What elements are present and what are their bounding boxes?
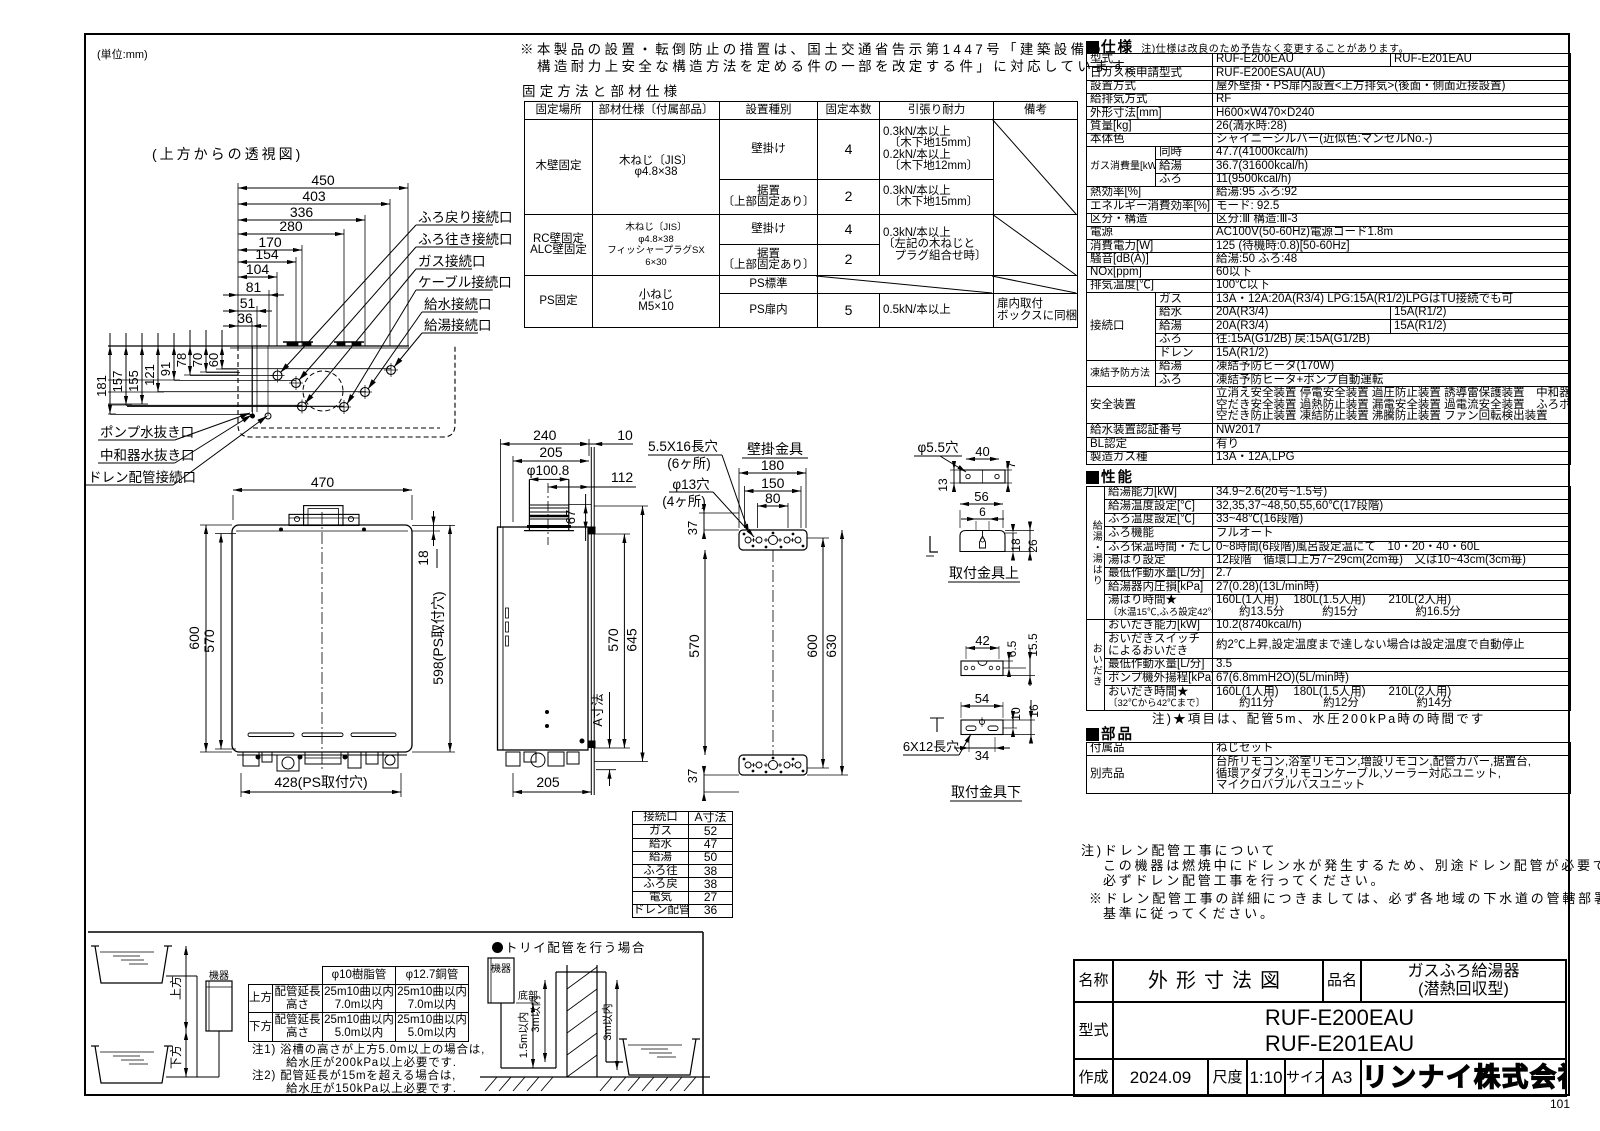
- svg-text:645: 645: [624, 628, 640, 652]
- svg-text:470: 470: [311, 474, 335, 490]
- svg-text:ふろ往き接続口: ふろ往き接続口: [418, 231, 513, 247]
- svg-text:下方: 下方: [168, 1045, 183, 1069]
- svg-text:180: 180: [761, 457, 785, 473]
- svg-text:26: 26: [1026, 539, 1040, 553]
- svg-text:5.5X16長穴: 5.5X16長穴: [648, 439, 718, 454]
- svg-text:10: 10: [1009, 707, 1023, 721]
- svg-text:67: 67: [563, 510, 578, 524]
- svg-text:205: 205: [536, 774, 560, 790]
- svg-text:機器: 機器: [209, 969, 229, 982]
- svg-text:81: 81: [246, 279, 262, 295]
- svg-text:ドレン配管接続口: ドレン配管接続口: [88, 469, 196, 485]
- svg-text:155: 155: [126, 370, 141, 392]
- svg-text:18: 18: [1009, 538, 1023, 552]
- svg-text:600: 600: [186, 626, 202, 650]
- svg-text:3m以内: 3m以内: [528, 995, 542, 1032]
- svg-text:(4ヶ所): (4ヶ所): [662, 494, 706, 509]
- svg-text:φ13穴: φ13穴: [672, 477, 709, 492]
- svg-text:403: 403: [302, 188, 326, 204]
- svg-text:7: 7: [1004, 461, 1018, 468]
- svg-text:φ5.5穴: φ5.5穴: [917, 440, 958, 455]
- svg-text:104: 104: [246, 261, 270, 277]
- svg-text:51: 51: [240, 295, 256, 311]
- svg-text:中和器水抜き口: 中和器水抜き口: [100, 448, 195, 463]
- svg-text:80: 80: [765, 490, 781, 506]
- svg-text:121: 121: [142, 364, 157, 386]
- svg-text:56: 56: [974, 489, 988, 504]
- svg-text:10: 10: [617, 427, 633, 443]
- svg-text:16: 16: [1027, 704, 1041, 718]
- svg-text:6.5: 6.5: [1005, 640, 1019, 657]
- svg-text:157: 157: [110, 371, 125, 393]
- svg-text:ふろ戻り接続口: ふろ戻り接続口: [418, 209, 513, 225]
- svg-text:91: 91: [158, 362, 173, 376]
- svg-text:機器: 機器: [491, 962, 511, 975]
- svg-text:18: 18: [415, 550, 431, 566]
- svg-text:給水接続口: 給水接続口: [424, 296, 492, 312]
- svg-text:A寸法: A寸法: [591, 693, 605, 726]
- svg-text:280: 280: [279, 218, 303, 234]
- svg-text:205: 205: [539, 444, 563, 460]
- svg-text:1.5m以内: 1.5m以内: [516, 1012, 530, 1058]
- svg-text:450: 450: [311, 172, 335, 188]
- svg-text:壁掛金具: 壁掛金具: [747, 441, 803, 457]
- svg-text:240: 240: [533, 427, 557, 443]
- svg-text:34: 34: [975, 748, 989, 763]
- svg-text:36: 36: [237, 310, 253, 326]
- svg-text:ケーブル接続口: ケーブル接続口: [418, 274, 512, 290]
- svg-text:570: 570: [686, 634, 702, 658]
- svg-text:給湯接続口: 給湯接続口: [424, 317, 492, 333]
- svg-text:40: 40: [975, 444, 989, 459]
- svg-text:上方: 上方: [168, 976, 183, 1000]
- svg-text:3m以内: 3m以内: [600, 1003, 614, 1040]
- svg-text:154: 154: [255, 246, 279, 262]
- svg-text:570: 570: [201, 629, 217, 653]
- svg-text:42: 42: [975, 633, 989, 648]
- svg-text:37: 37: [685, 769, 700, 783]
- svg-text:60: 60: [206, 353, 221, 367]
- svg-text:取付金具上: 取付金具上: [949, 565, 1019, 581]
- svg-text:取付金具下: 取付金具下: [951, 784, 1021, 800]
- svg-text:(6ヶ所): (6ヶ所): [667, 456, 711, 471]
- svg-text:181: 181: [94, 375, 109, 397]
- svg-text:70: 70: [190, 353, 205, 367]
- svg-text:78: 78: [174, 353, 189, 367]
- svg-text:630: 630: [823, 634, 839, 658]
- svg-text:37: 37: [685, 521, 700, 535]
- svg-text:600: 600: [804, 634, 820, 658]
- svg-text:ガス接続口: ガス接続口: [418, 253, 486, 269]
- svg-text:598(PS取付穴): 598(PS取付穴): [430, 591, 446, 684]
- svg-text:570: 570: [605, 628, 621, 652]
- svg-text:15.5: 15.5: [1026, 633, 1040, 657]
- svg-text:150: 150: [761, 475, 785, 491]
- svg-text:6X12長穴: 6X12長穴: [903, 739, 959, 754]
- svg-text:112: 112: [611, 469, 634, 485]
- svg-text:φ100.8: φ100.8: [527, 463, 570, 478]
- svg-text:6: 6: [979, 505, 986, 519]
- svg-text:54: 54: [975, 691, 989, 706]
- svg-text:428(PS取付穴): 428(PS取付穴): [274, 774, 367, 790]
- svg-text:13: 13: [936, 478, 950, 492]
